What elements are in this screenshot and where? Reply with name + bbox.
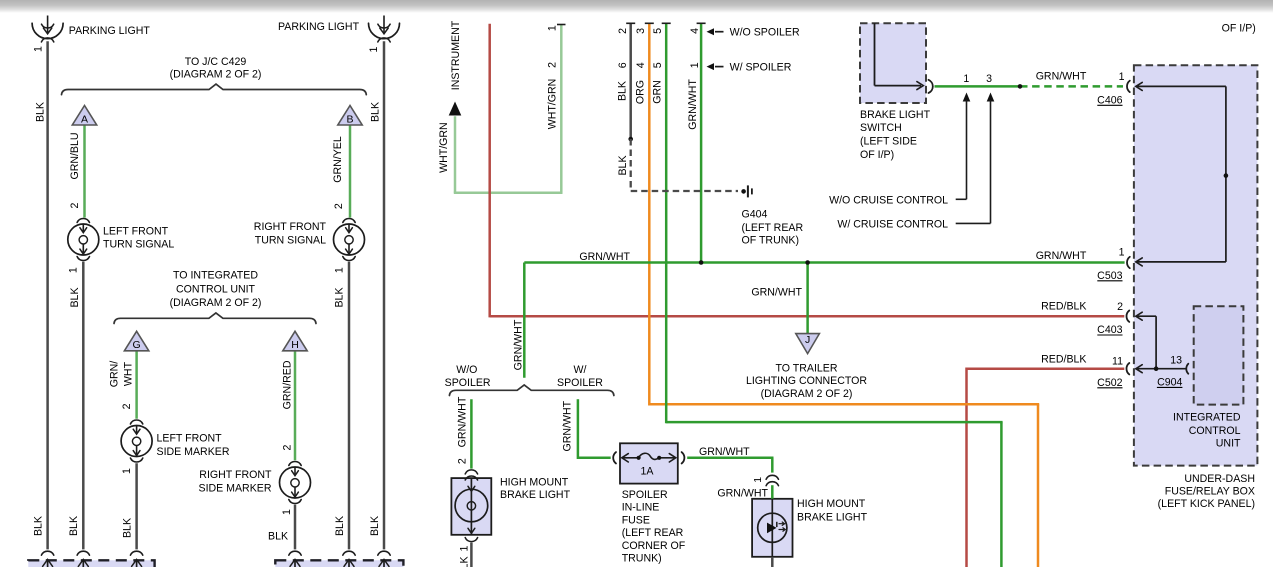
svg-text:BLK: BLK xyxy=(121,518,133,538)
svg-text:FUSE/RELAY BOX: FUSE/RELAY BOX xyxy=(1165,485,1255,497)
svg-text:TO INTEGRATED: TO INTEGRATED xyxy=(173,269,258,281)
svg-text:SPOILER: SPOILER xyxy=(557,377,603,389)
svg-text:BLK: BLK xyxy=(333,287,345,307)
svg-text:UNDER-DASH: UNDER-DASH xyxy=(1184,473,1255,485)
svg-text:2: 2 xyxy=(69,202,81,208)
svg-text:GRN/WHT: GRN/WHT xyxy=(751,286,802,298)
svg-text:11: 11 xyxy=(1112,355,1123,367)
svg-text:BLK: BLK xyxy=(334,516,346,536)
svg-text:INSTRUMENT: INSTRUMENT xyxy=(450,20,462,90)
svg-text:BLK: BLK xyxy=(369,516,381,536)
svg-text:W/: W/ xyxy=(574,364,587,376)
svg-text:H: H xyxy=(291,339,299,351)
svg-text:(LEFT KICK PANEL): (LEFT KICK PANEL) xyxy=(1158,498,1255,510)
svg-text:3: 3 xyxy=(986,73,992,85)
svg-text:C403: C403 xyxy=(1097,324,1122,336)
svg-text:PARKING LIGHT: PARKING LIGHT xyxy=(278,21,360,33)
svg-text:1: 1 xyxy=(752,477,764,483)
svg-text:BLK: BLK xyxy=(32,516,44,536)
svg-text:BRAKE LIGHT: BRAKE LIGHT xyxy=(500,489,571,501)
svg-text:BLK: BLK xyxy=(69,287,81,307)
svg-text:OF I/P): OF I/P) xyxy=(860,149,894,161)
svg-text:1: 1 xyxy=(963,73,969,85)
svg-text:1: 1 xyxy=(689,62,701,68)
svg-text:1: 1 xyxy=(1119,247,1125,259)
svg-text:WHT/GRN: WHT/GRN xyxy=(438,122,450,173)
svg-text:IN-LINE: IN-LINE xyxy=(622,502,660,514)
svg-text:2: 2 xyxy=(333,203,345,209)
svg-text:GRN/BLU: GRN/BLU xyxy=(69,132,81,179)
svg-text:C503: C503 xyxy=(1097,270,1122,282)
svg-text:GRN/WHT: GRN/WHT xyxy=(717,487,768,499)
svg-text:J: J xyxy=(805,334,810,346)
svg-text:W/ SPOILER: W/ SPOILER xyxy=(730,62,792,74)
svg-text:(LEFT REAR: (LEFT REAR xyxy=(622,527,684,539)
svg-text:C904: C904 xyxy=(1157,376,1182,388)
svg-text:B: B xyxy=(346,113,353,125)
svg-text:UNIT: UNIT xyxy=(1216,437,1241,449)
svg-text:(LEFT SIDE: (LEFT SIDE xyxy=(860,136,917,148)
svg-text:CONTROL: CONTROL xyxy=(1189,425,1241,437)
svg-text:OF TRUNK): OF TRUNK) xyxy=(742,235,799,247)
svg-text:GRN/WHT: GRN/WHT xyxy=(687,79,699,130)
svg-text:W/O SPOILER: W/O SPOILER xyxy=(730,26,800,38)
svg-text:1: 1 xyxy=(459,546,471,552)
svg-text:SIDE MARKER: SIDE MARKER xyxy=(157,446,230,458)
svg-text:1: 1 xyxy=(121,468,133,474)
svg-text:BLK: BLK xyxy=(459,556,471,567)
svg-text:2: 2 xyxy=(456,458,468,464)
svg-text:(DIAGRAM 2 OF 2): (DIAGRAM 2 OF 2) xyxy=(761,388,853,400)
svg-text:GRN/WHT: GRN/WHT xyxy=(699,446,750,458)
svg-text:CONTROL UNIT: CONTROL UNIT xyxy=(176,283,256,295)
svg-text:2: 2 xyxy=(121,403,133,409)
svg-text:1A: 1A xyxy=(641,465,655,477)
svg-text:13: 13 xyxy=(1170,355,1182,367)
svg-text:GRN/WHT: GRN/WHT xyxy=(456,396,468,447)
svg-text:TO J/C C429: TO J/C C429 xyxy=(185,56,247,68)
svg-text:GRN/WHT: GRN/WHT xyxy=(513,319,525,370)
svg-text:BLK: BLK xyxy=(68,516,80,536)
svg-text:SPOILER: SPOILER xyxy=(445,377,491,389)
svg-text:SPOILER: SPOILER xyxy=(622,489,668,501)
svg-text:TO TRAILER: TO TRAILER xyxy=(775,363,837,375)
svg-text:GRN/WHT: GRN/WHT xyxy=(579,251,630,263)
svg-text:TURN SIGNAL: TURN SIGNAL xyxy=(255,235,326,247)
svg-text:1: 1 xyxy=(368,46,380,52)
svg-text:BLK: BLK xyxy=(34,102,46,122)
svg-text:6: 6 xyxy=(617,62,629,68)
svg-text:BLK: BLK xyxy=(617,155,629,175)
svg-text:RIGHT FRONT: RIGHT FRONT xyxy=(254,221,327,233)
svg-text:1: 1 xyxy=(33,46,45,52)
svg-text:RED/BLK: RED/BLK xyxy=(1041,300,1086,312)
svg-text:GRN/YEL: GRN/YEL xyxy=(332,136,344,183)
svg-text:C406: C406 xyxy=(1097,94,1122,106)
svg-text:GRN/WHT: GRN/WHT xyxy=(1036,250,1087,262)
svg-text:GRN/: GRN/ xyxy=(108,361,120,388)
svg-text:3: 3 xyxy=(635,28,647,34)
svg-text:LEFT FRONT: LEFT FRONT xyxy=(103,225,169,237)
svg-text:BLK: BLK xyxy=(369,102,381,122)
svg-text:1: 1 xyxy=(1119,71,1125,83)
svg-text:ORG: ORG xyxy=(634,80,646,104)
svg-text:1: 1 xyxy=(281,509,293,515)
svg-text:INTEGRATED: INTEGRATED xyxy=(1173,412,1241,424)
svg-text:BLK: BLK xyxy=(617,81,629,101)
svg-text:RED/BLK: RED/BLK xyxy=(1041,354,1086,366)
svg-text:PARKING LIGHT: PARKING LIGHT xyxy=(69,25,151,37)
svg-text:G: G xyxy=(133,339,141,351)
svg-text:1: 1 xyxy=(547,25,559,31)
svg-text:BRAKE LIGHT: BRAKE LIGHT xyxy=(797,511,868,523)
svg-text:G404: G404 xyxy=(742,209,768,221)
svg-text:WHT/GRN: WHT/GRN xyxy=(547,79,559,130)
svg-text:(LEFT REAR: (LEFT REAR xyxy=(742,222,804,234)
svg-text:C502: C502 xyxy=(1097,377,1122,389)
svg-text:5: 5 xyxy=(652,28,664,34)
svg-text:RIGHT FRONT: RIGHT FRONT xyxy=(199,469,272,481)
svg-text:W/ CRUISE CONTROL: W/ CRUISE CONTROL xyxy=(837,219,948,231)
svg-text:GRN/WHT: GRN/WHT xyxy=(562,400,574,451)
svg-text:FUSE: FUSE xyxy=(622,515,650,527)
svg-text:2: 2 xyxy=(617,28,629,34)
svg-text:GRN/WHT: GRN/WHT xyxy=(1036,71,1087,83)
svg-text:5: 5 xyxy=(652,62,664,68)
svg-text:2: 2 xyxy=(281,445,293,451)
svg-text:LEFT FRONT: LEFT FRONT xyxy=(157,432,223,444)
svg-text:W/O: W/O xyxy=(456,364,477,376)
svg-text:A: A xyxy=(81,113,88,125)
svg-text:W/O CRUISE CONTROL: W/O CRUISE CONTROL xyxy=(829,195,948,207)
svg-text:LIGHTING CONNECTOR: LIGHTING CONNECTOR xyxy=(746,375,867,387)
svg-text:2: 2 xyxy=(547,62,559,68)
svg-text:WHT: WHT xyxy=(122,361,134,386)
svg-text:SWITCH: SWITCH xyxy=(860,122,902,134)
svg-text:HIGH MOUNT: HIGH MOUNT xyxy=(797,498,866,510)
svg-text:4: 4 xyxy=(635,62,647,68)
svg-text:SIDE MARKER: SIDE MARKER xyxy=(199,482,272,494)
svg-text:BRAKE LIGHT: BRAKE LIGHT xyxy=(860,109,931,121)
svg-text:2: 2 xyxy=(1117,301,1123,313)
svg-text:GRN: GRN xyxy=(651,80,663,104)
svg-text:(DIAGRAM 2 OF 2): (DIAGRAM 2 OF 2) xyxy=(170,297,262,309)
svg-text:(DIAGRAM 2 OF 2): (DIAGRAM 2 OF 2) xyxy=(170,68,262,80)
svg-text:4: 4 xyxy=(689,28,701,34)
svg-text:GRN/RED: GRN/RED xyxy=(281,360,293,409)
svg-text:OF I/P): OF I/P) xyxy=(1222,23,1256,35)
svg-text:1: 1 xyxy=(68,267,80,273)
svg-text:TRUNK): TRUNK) xyxy=(622,552,662,564)
svg-text:BLK: BLK xyxy=(268,531,288,543)
svg-text:HIGH MOUNT: HIGH MOUNT xyxy=(500,476,569,488)
svg-text:TURN SIGNAL: TURN SIGNAL xyxy=(103,239,174,251)
svg-text:1: 1 xyxy=(333,267,345,273)
svg-text:CORNER OF: CORNER OF xyxy=(622,540,686,552)
